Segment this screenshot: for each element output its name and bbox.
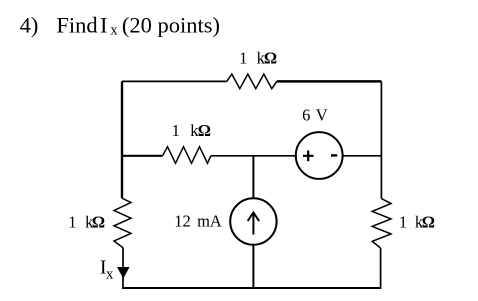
svg-text:6V: 6V xyxy=(302,106,328,125)
svg-text:4)FindI(20 points): 4)FindI(20 points) xyxy=(20,13,220,38)
svg-text:12mA: 12mA xyxy=(174,211,222,230)
svg-text:1kΩ: 1kΩ xyxy=(172,121,211,140)
svg-text:1kΩ: 1kΩ xyxy=(68,213,105,232)
svg-text:1kΩ: 1kΩ xyxy=(239,49,277,68)
svg-text:x: x xyxy=(110,22,118,38)
svg-text:1kΩ: 1kΩ xyxy=(399,213,435,232)
svg-text:x: x xyxy=(106,266,114,282)
